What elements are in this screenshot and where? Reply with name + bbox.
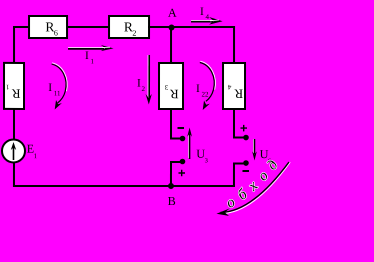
wire middle vertical lower (R3 down) <box>170 108 172 140</box>
svg-text:3: 3 <box>164 83 168 91</box>
current arrow I4 <box>191 21 213 23</box>
obhod curved arrow <box>220 162 289 213</box>
bottom wire <box>13 185 235 187</box>
wire left vertical upper <box>13 26 15 63</box>
EMF source E1 circle <box>2 139 25 162</box>
resistor R1 (left vertical box) <box>4 63 24 109</box>
wire middle lower vertical to B <box>170 161 172 186</box>
terminal dot right lower <box>243 160 249 166</box>
arrowhead I22 <box>203 101 210 111</box>
resistor R6 (top left box) <box>29 16 67 38</box>
svg-text:I: I <box>48 82 52 94</box>
terminal dot middle upper <box>180 136 186 142</box>
svg-text:11: 11 <box>54 89 61 97</box>
svg-text:2: 2 <box>142 85 146 93</box>
minus sign middle upper <box>178 127 185 129</box>
label R4 rotated <box>227 83 243 102</box>
arrowhead I1 <box>101 45 114 51</box>
loop current arc I11 (white halo) <box>52 63 67 92</box>
wire between top resistors <box>67 26 110 28</box>
loop current arc I22 (white halo) <box>200 61 215 90</box>
obhod text path (invisible guide) <box>222 158 284 212</box>
current arrow I4 (top right, white halo) <box>191 19 213 21</box>
wire top-left horizontal <box>13 26 30 28</box>
svg-text:R: R <box>170 87 179 102</box>
wire right bend to upper terminal <box>233 137 244 139</box>
arrowhead I4 white streak <box>210 19 219 22</box>
minus sign right lower <box>242 170 249 172</box>
wire from R2 to node A and to right branch <box>148 26 235 28</box>
svg-text:R: R <box>234 87 243 102</box>
current arrow I2 <box>148 55 150 97</box>
arrowhead I2 <box>146 94 152 105</box>
svg-text:I: I <box>137 77 141 89</box>
label R3 rotated <box>164 83 178 102</box>
resistor R3 (middle vertical box) <box>159 63 183 109</box>
wire right lower bend <box>234 163 247 165</box>
svg-text:1: 1 <box>91 57 95 65</box>
obhod arrowhead <box>216 208 230 216</box>
current arrow I2 (white halo) <box>147 55 149 97</box>
wire source to bottom <box>13 162 15 187</box>
svg-text:3: 3 <box>205 157 208 164</box>
arrowhead I1 white streak <box>102 46 110 48</box>
plus sign right upper <box>240 125 247 132</box>
resistor R4 (right vertical box) <box>223 63 245 109</box>
terminal dot right upper <box>243 135 249 141</box>
voltage arrow U6 head <box>252 151 257 160</box>
svg-text:1: 1 <box>34 152 38 160</box>
svg-text:6: 6 <box>54 29 58 38</box>
svg-text:A: A <box>168 6 177 20</box>
obhod curved arrow white halo <box>221 162 290 213</box>
current arrow I1 <box>68 48 104 50</box>
voltage arrow U3 head <box>187 128 192 137</box>
svg-text:B: B <box>168 194 176 208</box>
voltage arrow U3 (up) white halo <box>187 134 189 158</box>
wire middle bend to upper terminal <box>170 137 181 139</box>
arrowhead I11 <box>55 100 62 110</box>
svg-text:1: 1 <box>5 83 9 91</box>
voltage arrow U3 shaft <box>189 134 191 159</box>
node A <box>169 24 175 30</box>
terminal dot middle lower <box>180 159 186 165</box>
resistor R2 (top right box) <box>109 16 149 38</box>
EMF arrowhead <box>11 142 16 150</box>
node B <box>168 183 174 189</box>
voltage arrow U6 shaft <box>253 139 255 154</box>
loop current arc I22 <box>200 63 214 102</box>
svg-text:22: 22 <box>202 91 210 99</box>
current arrow I1 (white halo) <box>68 47 104 49</box>
wire right lower vertical to bottom <box>233 163 235 188</box>
svg-text:2: 2 <box>132 29 136 38</box>
plus sign middle lower <box>178 170 185 177</box>
svg-text:I: I <box>200 6 204 18</box>
svg-text:R: R <box>12 86 21 101</box>
wire right vertical upper <box>233 26 235 63</box>
svg-text:I: I <box>196 83 200 95</box>
svg-text:4: 4 <box>227 83 231 91</box>
arrowhead I4 <box>209 17 223 25</box>
wire middle lower bend <box>171 161 184 163</box>
wire left vertical lower (R1 to source) <box>13 108 15 140</box>
svg-text:I: I <box>85 50 89 62</box>
wire middle vertical upper <box>170 28 172 63</box>
voltage arrow U6 (down) white halo <box>252 139 254 154</box>
label R1 rotated <box>5 83 20 102</box>
svg-text:4: 4 <box>206 13 210 21</box>
EMF arrow shaft <box>12 147 14 160</box>
loop current arc I11 <box>52 64 66 103</box>
wire right vertical lower (R4 down) <box>233 108 235 138</box>
